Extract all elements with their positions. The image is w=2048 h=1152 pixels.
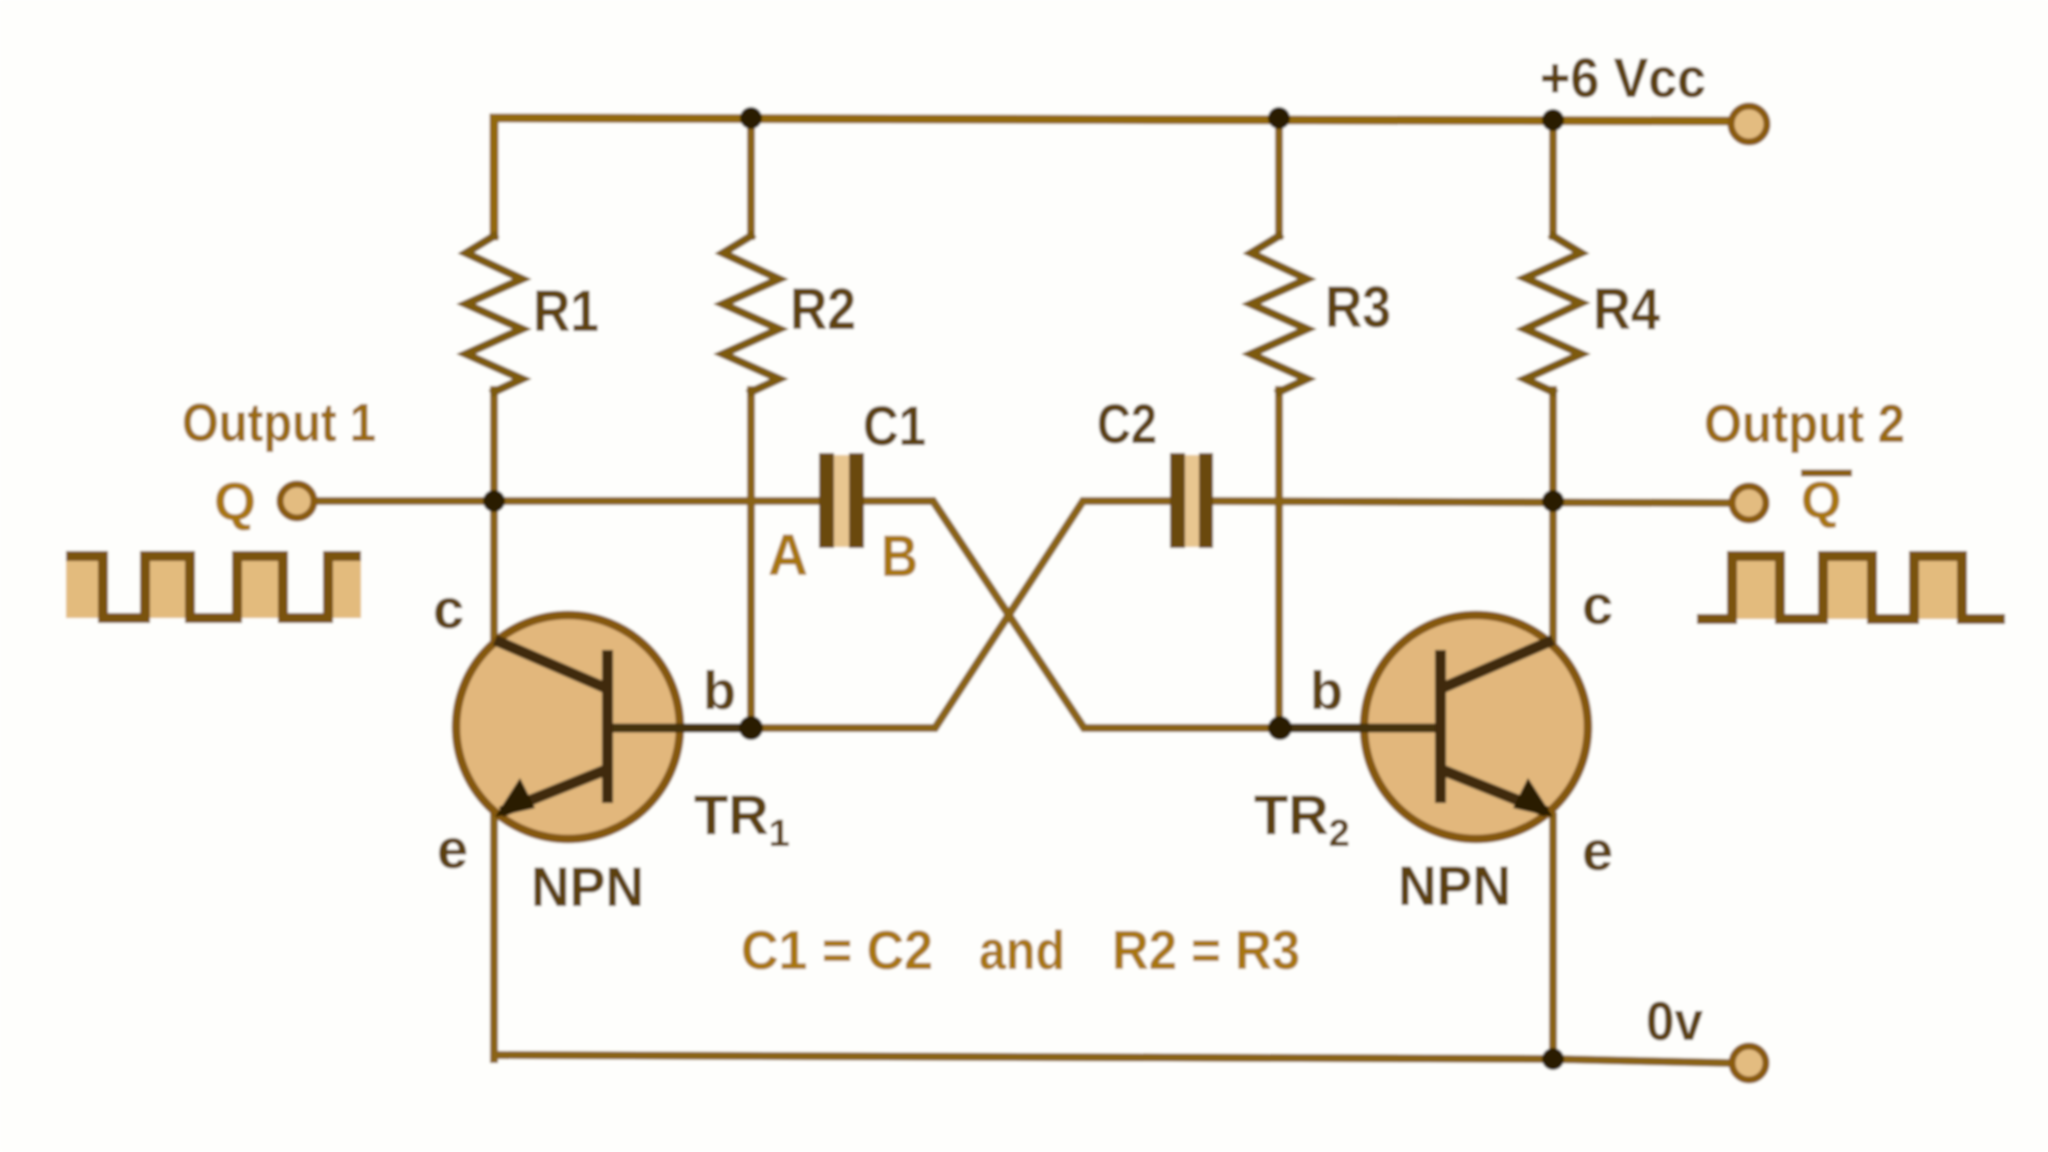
node junction top R4 (1542, 109, 1564, 131)
terminal Qbar output (1732, 486, 1766, 520)
waveform output 2 (1697, 556, 2005, 619)
terminal 0v (1732, 1046, 1766, 1080)
resistor R3 (1251, 236, 1307, 392)
node bottom rail junction (1542, 1048, 1564, 1070)
wire TR1 base to C2 left (cross diagonal) (610, 501, 1172, 728)
terminal +6 Vcc (1731, 106, 1767, 142)
svg-text:b: b (703, 661, 736, 721)
node junction top R2 (740, 107, 762, 129)
svg-text:A: A (768, 523, 808, 588)
wire TR1 base lead (dark) (613, 724, 758, 733)
svg-text:R1: R1 (533, 279, 599, 344)
wire TR2 base lead (1282, 724, 1444, 732)
wire R1 branch lower (collector lead TR1) (490, 390, 498, 640)
svg-text:C1: C1 (863, 394, 926, 457)
svg-text:+6 Vcc: +6 Vcc (1540, 46, 1706, 109)
svg-text:e: e (1582, 819, 1613, 882)
wire Q output line (317, 497, 821, 505)
capacitor C2 (1170, 453, 1213, 548)
svg-text:Q: Q (1801, 472, 1841, 530)
terminal Q output (280, 484, 314, 518)
wire TR2 emitter to bottom rail (1549, 816, 1557, 1059)
wire bottom 0v rail (494, 1055, 1730, 1063)
svg-text:and: and (979, 919, 1065, 981)
svg-text:Output 1: Output 1 (182, 393, 376, 453)
wire top Vcc rail (494, 118, 1729, 236)
svg-text:R2 = R3: R2 = R3 (1112, 919, 1300, 981)
svg-text:c: c (433, 577, 464, 640)
resistor R2 (723, 236, 779, 392)
resistor R1 (466, 236, 522, 392)
wire R2 branch (747, 119, 755, 728)
transistor TR2 (1364, 615, 1588, 839)
capacitor C1 (819, 453, 864, 548)
node TR1 base junction (739, 716, 763, 740)
svg-text:0v: 0v (1646, 990, 1703, 1052)
resistor R4 (1525, 236, 1581, 392)
svg-text:NPN: NPN (531, 855, 644, 918)
wire C2 right to Qbar terminal (1212, 501, 1729, 503)
wire R3 branch (1275, 119, 1283, 728)
svg-text:B: B (881, 524, 918, 589)
svg-text:R4: R4 (1593, 277, 1660, 342)
svg-text:Output 2: Output 2 (1704, 394, 1905, 454)
wire R4 branch (collector lead TR2) (1549, 120, 1557, 640)
node Q collector junction (483, 490, 505, 512)
svg-text:Q: Q (214, 472, 256, 532)
svg-text:C2: C2 (1097, 392, 1157, 455)
svg-text:b: b (1310, 661, 1343, 721)
svg-text:R2: R2 (790, 277, 856, 342)
waveform output 1 (66, 556, 361, 618)
transistor TR1 (456, 615, 680, 839)
wire TR1 emitter to bottom rail (490, 814, 498, 1059)
node junction top R3 (1268, 107, 1290, 129)
wire C1 right to TR2 base (cross diagonal) (863, 501, 1282, 728)
node TR2 base junction (1268, 716, 1292, 740)
node Qbar collector junction (1542, 490, 1564, 512)
svg-text:C1 = C2: C1 = C2 (741, 919, 933, 981)
svg-text:NPN: NPN (1398, 854, 1511, 917)
svg-text:e: e (437, 817, 468, 880)
svg-text:R3: R3 (1325, 275, 1391, 340)
svg-text:c: c (1582, 573, 1613, 636)
wire TR2 base lead (dark) (1273, 724, 1435, 733)
